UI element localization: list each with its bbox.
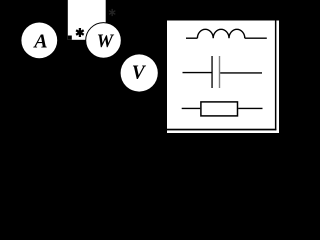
faint polarity asterisk (voltage coil, dark on black) [109,9,115,16]
inductor right lead wire [245,37,267,39]
load panel (white inset) [167,21,279,134]
voltmeter V1 circle [121,54,158,91]
panel border bottom [167,129,276,131]
notch at box bottom-left corner [68,36,72,40]
capacitor right plate (grey) [219,56,220,88]
resistor R1 [182,102,263,116]
ammeter A1 circle [21,23,57,59]
panel border right [275,21,277,131]
resistor left lead wire [182,107,201,109]
resistor body rectangle [201,102,238,116]
inductor humps [197,29,244,38]
wattmeter coil box (white label box) [68,0,106,40]
capacitor right lead wire [220,72,262,74]
svg-text:A: A [32,31,47,53]
capacitor C1 [183,56,263,88]
capacitor left lead wire [183,72,212,74]
inductor L1 [186,29,267,38]
capacitor left plate [211,56,212,88]
polarity asterisk (current coil) [76,28,84,37]
svg-text:V: V [132,62,147,83]
resistor right lead wire [238,107,262,109]
inductor left lead wire [186,37,197,39]
svg-text:W: W [97,32,115,52]
wattmeter W1 circle [86,23,122,59]
